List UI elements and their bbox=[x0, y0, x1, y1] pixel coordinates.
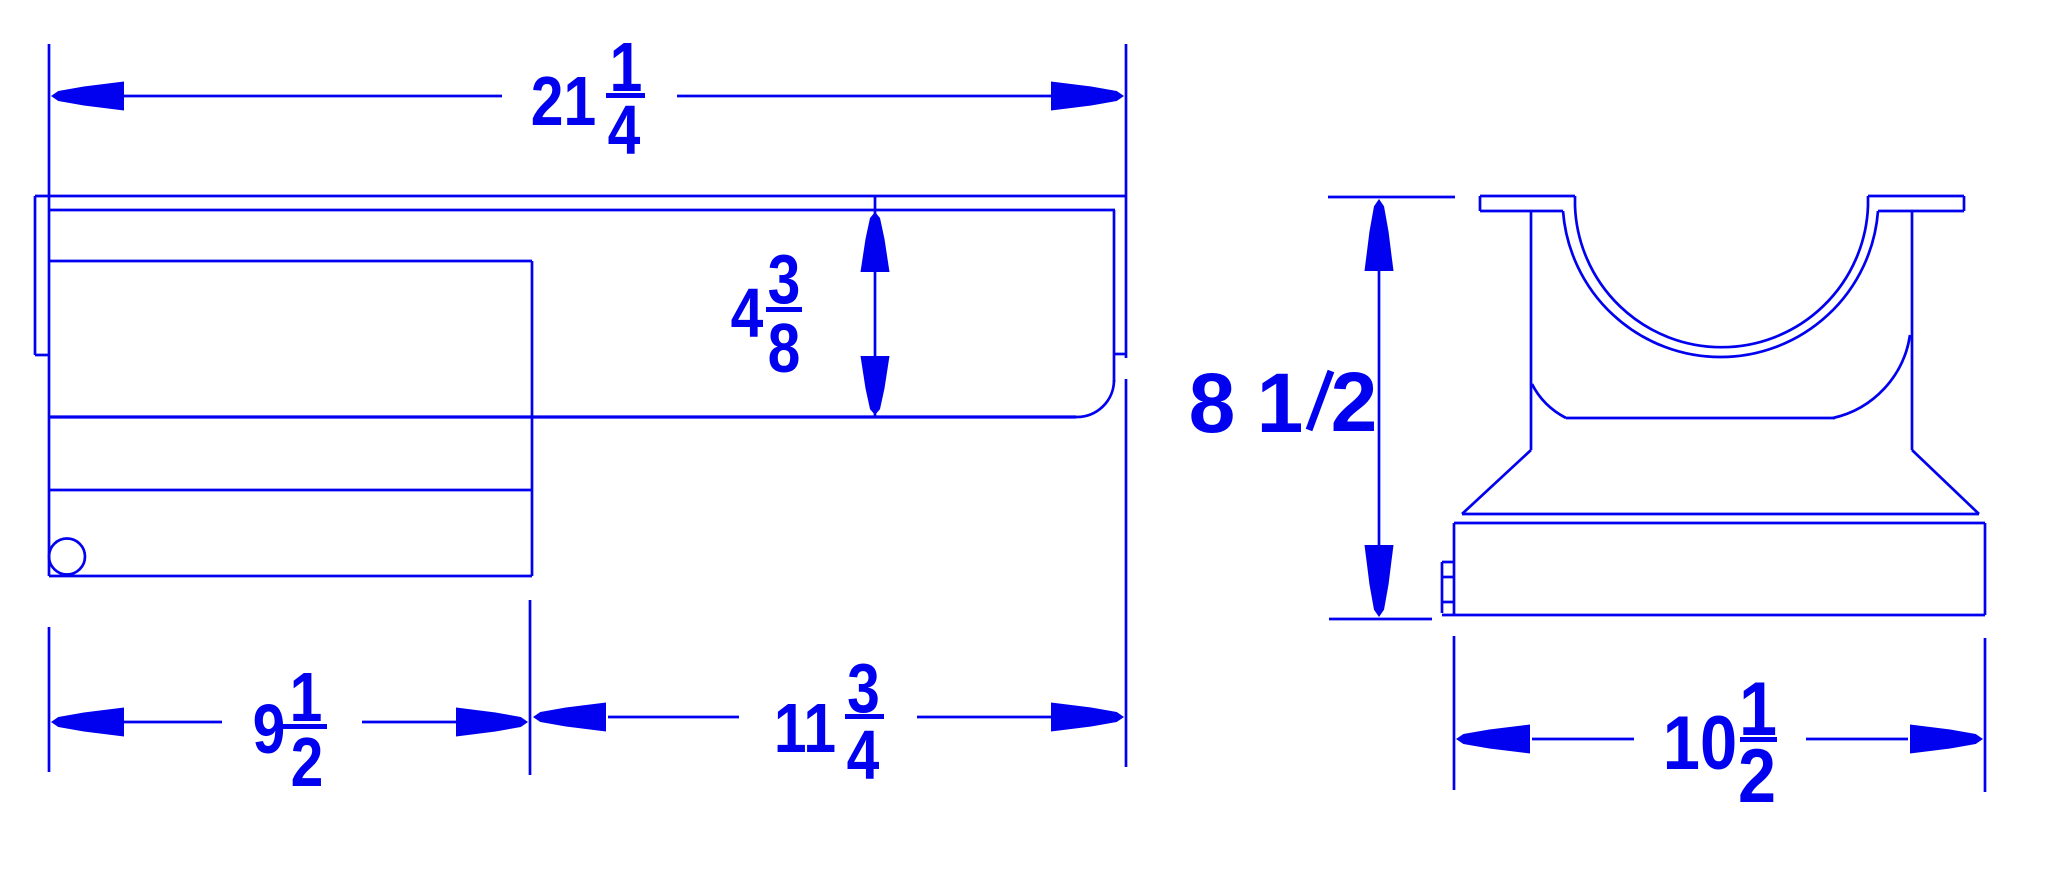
extension line shared middle (9 1/2 / 11 3/4) bbox=[529, 600, 532, 775]
dimension text 1/4 fraction bar bbox=[606, 93, 645, 98]
dimension line 8 1/2 vertical bbox=[1378, 271, 1381, 545]
right view: right flange left edge bbox=[1867, 196, 1870, 206]
arrowhead 9 1/2 right bbox=[456, 708, 528, 737]
arrowhead 11 3/4 right bbox=[1051, 703, 1124, 732]
dimension text 3/4 fraction bar bbox=[845, 714, 884, 719]
arrowhead 4 3/8 down bbox=[861, 356, 890, 415]
dimension text 1/2 fraction bar (9 1/2) bbox=[283, 724, 327, 729]
arrowhead 8 1/2 up bbox=[1365, 199, 1394, 271]
extension line 8 1/2 bottom bbox=[1329, 618, 1432, 621]
dimension line 10 1/2 right segment bbox=[1806, 738, 1908, 741]
dimension line 21 1/4 left segment bbox=[120, 95, 502, 98]
right view: right flange right edge bbox=[1963, 196, 1966, 211]
right view: side tab divider 2 bbox=[1442, 601, 1454, 604]
right view: saddle bowl outer arc bbox=[1575, 206, 1868, 347]
svg-text:3: 3 bbox=[768, 239, 801, 318]
extension line 10 1/2 right bbox=[1984, 638, 1987, 792]
dimension text 3/8 fraction bar bbox=[766, 307, 802, 312]
left extension line (21 1/4, left, merges with part left edge) bbox=[48, 44, 51, 576]
left view: lip inner vertical bbox=[1113, 210, 1116, 382]
arrowhead 10 1/2 left bbox=[1456, 725, 1530, 754]
svg-text:9: 9 bbox=[253, 689, 286, 768]
arrowhead 11 3/4 left bbox=[533, 703, 606, 732]
left view: body rect top bbox=[49, 260, 532, 263]
right view: side tab left edge bbox=[1441, 562, 1444, 613]
svg-text:8: 8 bbox=[768, 308, 801, 387]
right view: right flange top bbox=[1868, 195, 1964, 198]
right view: left flange underside bbox=[1480, 210, 1563, 213]
extension line 8 1/2 top bbox=[1328, 196, 1455, 199]
arrowhead 10 1/2 right bbox=[1910, 725, 1983, 754]
right view: pocket bottom line bbox=[1566, 417, 1835, 420]
left view: fillet arc at arm end bbox=[1076, 380, 1114, 417]
right view: pocket right arc bbox=[1833, 335, 1910, 418]
svg-text:2: 2 bbox=[1331, 355, 1378, 449]
left view: body rect right edge bbox=[531, 261, 534, 576]
right view: left flange top bbox=[1480, 195, 1575, 198]
left view: hole circle bbox=[49, 539, 85, 575]
dimension line 11 3/4 left segment bbox=[608, 716, 739, 719]
right view: base left edge bbox=[1453, 523, 1456, 615]
right view: base right edge bbox=[1984, 523, 1987, 615]
right view: left flange left edge bbox=[1479, 196, 1482, 211]
right view: pocket left fillet bbox=[1532, 384, 1566, 418]
dimension line 11 3/4 right segment bbox=[917, 716, 1052, 719]
svg-text:2: 2 bbox=[291, 722, 324, 801]
extension line 10 1/2 left bbox=[1453, 636, 1456, 790]
left view: mid line lower bbox=[49, 489, 532, 492]
dimension line 10 1/2 left segment bbox=[1532, 738, 1634, 741]
right view: right wall bbox=[1911, 211, 1914, 450]
left view: lip step stub bbox=[1114, 353, 1126, 356]
svg-text:4: 4 bbox=[608, 90, 641, 169]
arrowhead 21 1/4 left bbox=[51, 82, 124, 111]
right view: left wall bbox=[1530, 211, 1533, 450]
left view: top flange inner line bbox=[49, 209, 1115, 212]
right view: right flange underside bbox=[1878, 210, 1964, 213]
left view: mid line upper (arm bottom) bbox=[49, 415, 1076, 418]
svg-text:21: 21 bbox=[531, 61, 596, 140]
svg-text:4: 4 bbox=[847, 715, 880, 794]
right view: side tab top bbox=[1442, 561, 1454, 564]
arrowhead 4 3/8 up bbox=[861, 212, 890, 272]
svg-text:4: 4 bbox=[731, 273, 764, 352]
left view: tab left edge bbox=[34, 196, 37, 355]
svg-text:10: 10 bbox=[1663, 701, 1737, 786]
dimension 4 3/8 vertical line bbox=[874, 196, 877, 416]
svg-text:1: 1 bbox=[1257, 356, 1304, 450]
svg-text:8: 8 bbox=[1189, 356, 1236, 450]
extension line 11 3/4 right bbox=[1125, 379, 1128, 767]
right view: base chamfer top line bbox=[1462, 513, 1979, 516]
left view: top flange outer top line bbox=[35, 195, 1126, 198]
dimension line 9 1/2 left segment bbox=[120, 721, 222, 724]
arrowhead 8 1/2 down bbox=[1365, 545, 1394, 617]
dimension line 9 1/2 right segment bbox=[362, 721, 458, 724]
dimension text 1/2 fraction bar (10 1/2) bbox=[1740, 737, 1777, 742]
right view: base bottom line bbox=[1442, 614, 1985, 617]
right view: right flare diagonal bbox=[1912, 450, 1979, 514]
right view: side tab divider 1 bbox=[1442, 576, 1454, 579]
arrowhead 9 1/2 left bbox=[51, 708, 124, 737]
arrowhead 21 1/4 right bbox=[1051, 82, 1124, 111]
left view: body rect bottom bbox=[49, 575, 532, 578]
dimension line 21 1/4 right segment bbox=[677, 95, 1054, 98]
right view: left flange right edge bbox=[1574, 196, 1577, 206]
dimension text slash (8 1/2 inline) bbox=[1309, 371, 1331, 430]
right view: saddle bowl inner arc bbox=[1563, 211, 1878, 357]
left view: tab bottom stub bbox=[35, 354, 49, 357]
extension line 9 1/2 left bbox=[48, 627, 51, 772]
right view: left flare diagonal bbox=[1462, 450, 1531, 514]
svg-text:2: 2 bbox=[1738, 735, 1776, 819]
right extension line (21 1/4, right, merges with lip outer edge) bbox=[1125, 44, 1128, 358]
right view: base top line bbox=[1454, 522, 1985, 525]
svg-text:11: 11 bbox=[774, 688, 836, 767]
